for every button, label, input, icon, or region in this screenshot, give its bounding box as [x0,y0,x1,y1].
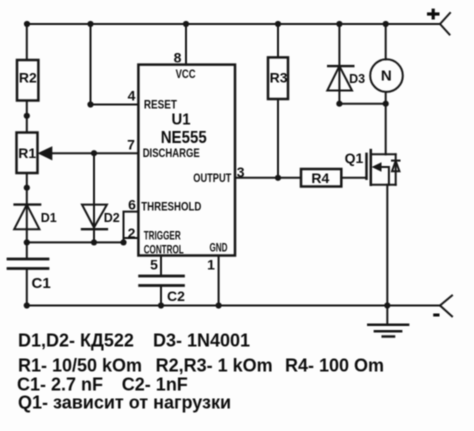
svg-text:D1,D2- КД522: D1,D2- КД522 [18,331,134,351]
svg-text:TRIGGER: TRIGGER [144,229,181,243]
svg-text:4: 4 [128,88,136,104]
svg-text:THRESHOLD: THRESHOLD [141,200,201,214]
svg-text:R1- 10/50 kOm: R1- 10/50 kOm [18,356,142,376]
svg-text:CONTROL: CONTROL [144,242,184,256]
svg-text:GND: GND [210,240,228,254]
svg-text:6: 6 [128,197,136,213]
svg-text:R2: R2 [19,69,37,85]
svg-text:D1: D1 [41,211,57,225]
svg-text:Q1- зависит от нагрузки: Q1- зависит от нагрузки [18,393,231,413]
svg-text:OUTPUT: OUTPUT [193,171,232,185]
svg-text:8: 8 [174,50,182,66]
svg-text:C1: C1 [32,275,51,292]
svg-text:C2- 1nF: C2- 1nF [122,375,188,395]
svg-text:C2: C2 [167,288,185,304]
svg-text:5: 5 [150,257,158,273]
svg-text:C1- 2.7 nF: C1- 2.7 nF [17,375,103,395]
svg-text:R3: R3 [270,70,288,86]
svg-text:RESET: RESET [144,97,178,111]
svg-text:NE555: NE555 [161,127,207,147]
svg-text:1: 1 [207,257,215,273]
svg-text:R4: R4 [311,170,329,186]
svg-text:D3- 1N4001: D3- 1N4001 [153,331,250,351]
svg-text:VCC: VCC [176,67,196,81]
svg-text:DISCHARGE: DISCHARGE [143,146,200,160]
svg-text:D2: D2 [104,211,120,225]
svg-text:2: 2 [128,225,136,241]
svg-text:N: N [381,67,392,84]
svg-text:7: 7 [127,137,135,153]
svg-text:R1: R1 [18,145,36,161]
svg-text:D3: D3 [349,72,365,86]
svg-text:R4- 100 Om: R4- 100 Om [285,356,384,376]
svg-text:R2,R3- 1 kOm: R2,R3- 1 kOm [156,356,273,376]
svg-text:3: 3 [237,164,245,180]
svg-text:Q1: Q1 [345,150,364,166]
